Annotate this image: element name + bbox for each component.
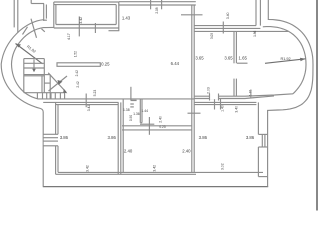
wire: central big vertical wall — [191, 5, 193, 172]
wire: D-bay outer wall — [268, 0, 313, 187]
wire: right bottom room right wall — [257, 102, 259, 134]
wire: left exterior wall window — [44, 135, 58, 145]
wire: left bay window tick 1 — [23, 27, 28, 35]
wire: left bay window tick 2 — [31, 19, 37, 38]
wire: rooms bottom wall door gap whiteout — [210, 95, 219, 99]
wire: D-bay radius leader R1.92 — [265, 59, 306, 64]
svg-text:R1.92: R1.92 — [281, 57, 291, 61]
wire: stairs upper flight — [24, 58, 45, 60]
svg-text:1.86: 1.86 — [253, 30, 257, 36]
wire: D-bay inner wall — [194, 27, 306, 97]
wire: corridor dimension ticks — [148, 117, 150, 135]
wire: wall between top-right rooms — [233, 31, 235, 63]
wire: rooms bottom lower line — [194, 96, 274, 99]
svg-text:1.44: 1.44 — [141, 109, 148, 113]
svg-text:3.65: 3.65 — [224, 56, 233, 61]
svg-text:2.40: 2.40 — [182, 149, 191, 154]
svg-text:3.86: 3.86 — [60, 135, 69, 140]
wire: left bay outer arc wall — [1, 20, 44, 187]
svg-text:3.40: 3.40 — [226, 12, 230, 19]
svg-text:3.86: 3.86 — [246, 135, 255, 140]
tick 1.81 line — [250, 90, 252, 98]
svg-text:4.17: 4.17 — [67, 33, 71, 40]
svg-text:1.43: 1.43 — [122, 15, 131, 20]
wire: stairs lower treads — [36, 93, 38, 99]
wire: door X symbol — [48, 73, 66, 92]
wire: dimension ticks on top-left room bottom — [78, 16, 80, 36]
wire: page border right — [316, 0, 318, 211]
svg-text:3.86: 3.86 — [108, 135, 117, 140]
wire: band tick left — [85, 94, 87, 108]
svg-text:3.42: 3.42 — [87, 105, 91, 112]
wire: stairs winder — [49, 75, 51, 99]
wire: left bay radius leader R1.92 — [16, 44, 43, 64]
wire: closet door dashes — [131, 99, 137, 101]
svg-text:3.02: 3.02 — [221, 163, 225, 170]
svg-text:5.23: 5.23 — [93, 90, 97, 97]
wire: partition bar with 0.25 — [57, 63, 100, 67]
wire: bottom rooms left wall cluster — [117, 102, 119, 174]
wire: top middle wall — [119, 1, 196, 3]
wire: left rooms top wall — [43, 101, 118, 103]
svg-text:3.42: 3.42 — [86, 165, 90, 172]
wire: top-right vertical wall pair — [255, 0, 257, 26]
svg-text:3.42: 3.42 — [79, 17, 83, 24]
svg-text:0.25: 0.25 — [101, 62, 110, 67]
svg-text:6.44: 6.44 — [171, 61, 180, 66]
svg-text:3.40: 3.40 — [235, 106, 239, 113]
svg-text:2.40: 2.40 — [159, 116, 163, 123]
svg-text:2.40: 2.40 — [124, 149, 133, 154]
wire: building bottom outer wall — [43, 186, 268, 188]
wire: top-right rooms exterior top wall — [194, 25, 256, 27]
svg-text:1.38: 1.38 — [123, 108, 130, 112]
wire: stairs landing — [24, 92, 65, 94]
svg-text:1.40: 1.40 — [221, 105, 225, 112]
wire: right wall window — [258, 133, 267, 135]
svg-text:3.05: 3.05 — [210, 33, 214, 39]
wire: top-left room walls — [54, 1, 119, 3]
wire: top-left cropped wall strips — [13, 0, 15, 27]
svg-text:0.90: 0.90 — [129, 115, 133, 121]
svg-text:1.65: 1.65 — [239, 56, 248, 61]
svg-text:3.86: 3.86 — [199, 135, 208, 140]
svg-text:1.52: 1.52 — [74, 51, 78, 57]
wire: left bay window tick 3 — [42, 29, 45, 32]
svg-text:2.03: 2.03 — [206, 87, 210, 94]
svg-text:0.25: 0.25 — [159, 125, 165, 129]
svg-text:3.65: 3.65 — [195, 56, 204, 61]
svg-text:1.36: 1.36 — [133, 112, 140, 116]
wire: right room top wall — [194, 101, 256, 103]
svg-text:2.42: 2.42 — [75, 70, 79, 76]
svg-text:2.08: 2.08 — [155, 7, 159, 13]
wire: stairs down arrow — [33, 59, 35, 70]
wire: left bay inner arc wall — [12, 27, 195, 99]
svg-text:3.42: 3.42 — [153, 165, 157, 172]
svg-text:2.42: 2.42 — [76, 81, 80, 87]
wire: bottom rooms bottom wall — [56, 173, 196, 175]
wire: left room left wall — [55, 102, 57, 134]
wire: bottom-right corner — [258, 176, 267, 178]
wire: closet right wall — [139, 99, 141, 123]
wire: corridor south wall — [122, 125, 192, 127]
